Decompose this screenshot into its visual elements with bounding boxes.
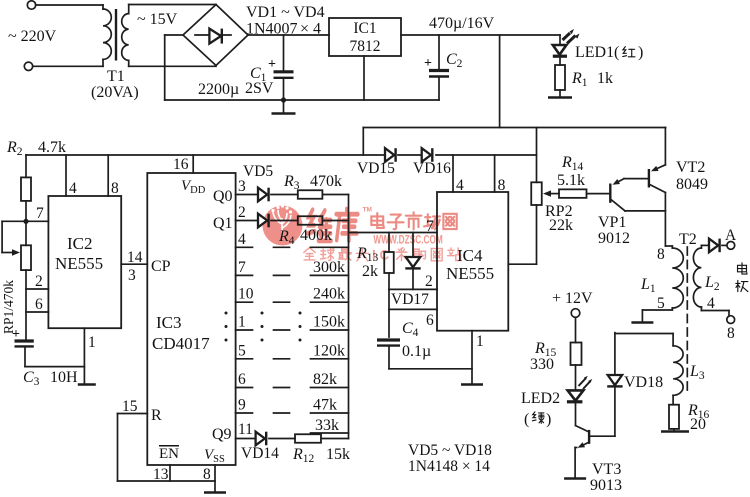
svg-text:8: 8 — [727, 325, 735, 342]
svg-text:470µ/16V: 470µ/16V — [429, 15, 495, 32]
svg-text:IC2: IC2 — [67, 234, 93, 253]
svg-text:2: 2 — [425, 273, 433, 290]
svg-text:VD15: VD15 — [357, 160, 395, 177]
svg-text:RP1/470k: RP1/470k — [1, 280, 16, 334]
svg-text:7: 7 — [426, 218, 434, 235]
svg-text:LED1: LED1 — [575, 44, 614, 61]
svg-text:VD5: VD5 — [243, 163, 273, 180]
svg-text:): ) — [546, 411, 551, 428]
svg-text:NE555: NE555 — [446, 264, 494, 283]
svg-text:Q0: Q0 — [213, 188, 233, 205]
svg-text:8: 8 — [111, 180, 119, 197]
svg-text:9012: 9012 — [598, 230, 630, 247]
svg-text:13: 13 — [153, 466, 169, 483]
svg-text:2: 2 — [238, 204, 246, 221]
svg-text:470k: 470k — [310, 173, 342, 190]
svg-text:0.1µ: 0.1µ — [402, 343, 431, 360]
svg-text:Q9: Q9 — [212, 426, 232, 443]
svg-text:2SV: 2SV — [245, 80, 274, 97]
svg-text:3: 3 — [238, 178, 246, 195]
svg-text:11: 11 — [238, 421, 253, 438]
svg-text:NE555: NE555 — [55, 254, 103, 273]
svg-text:7: 7 — [36, 205, 44, 222]
svg-text:1: 1 — [88, 334, 96, 351]
svg-text:7812: 7812 — [350, 38, 381, 55]
svg-text:T1: T1 — [107, 68, 125, 85]
svg-text:2: 2 — [35, 273, 43, 290]
svg-text:Q1: Q1 — [213, 215, 233, 232]
svg-text:150k: 150k — [313, 314, 345, 331]
svg-text:4: 4 — [69, 180, 77, 197]
svg-text:120k: 120k — [313, 342, 345, 359]
svg-text:VT3: VT3 — [592, 461, 621, 478]
svg-text:82k: 82k — [313, 371, 337, 388]
svg-text:R: R — [151, 407, 162, 424]
svg-text:22k: 22k — [549, 217, 573, 234]
svg-text:TM: TM — [363, 207, 372, 214]
svg-text:+ 12V: + 12V — [552, 290, 593, 307]
svg-text:~ 220V: ~ 220V — [8, 28, 57, 45]
svg-text:5: 5 — [657, 295, 665, 312]
svg-text:15: 15 — [122, 398, 138, 415]
svg-text:WWW.DZSC.COM: WWW.DZSC.COM — [373, 234, 442, 247]
svg-text:LED2: LED2 — [521, 390, 560, 407]
svg-text:1k: 1k — [597, 70, 613, 87]
svg-text:1N4148 × 14: 1N4148 × 14 — [408, 458, 490, 475]
svg-text:IC4: IC4 — [457, 246, 483, 265]
svg-text:(20VA): (20VA) — [91, 84, 139, 101]
svg-text:240k: 240k — [313, 286, 345, 303]
svg-text:4: 4 — [707, 295, 715, 312]
svg-text:14: 14 — [127, 249, 143, 266]
svg-text:CD4017: CD4017 — [152, 334, 210, 353]
svg-text:3: 3 — [128, 267, 136, 284]
svg-text:4.7k: 4.7k — [38, 139, 66, 156]
svg-text:4: 4 — [238, 231, 246, 248]
svg-text:5.1k: 5.1k — [557, 172, 585, 189]
svg-text:33k: 33k — [315, 417, 339, 434]
svg-text:8: 8 — [498, 177, 506, 194]
svg-text:VD17: VD17 — [391, 291, 429, 308]
svg-text:(: ( — [524, 411, 529, 428]
svg-text:VD5 ~ VD18: VD5 ~ VD18 — [408, 442, 492, 459]
svg-text:8049: 8049 — [676, 176, 708, 193]
svg-text:2k: 2k — [362, 263, 378, 280]
svg-text:15k: 15k — [326, 446, 350, 463]
svg-text:A: A — [725, 227, 737, 244]
svg-text:7: 7 — [238, 259, 246, 276]
svg-text:VT2: VT2 — [676, 159, 705, 176]
svg-text:IC3: IC3 — [156, 313, 182, 332]
svg-text:IC1: IC1 — [353, 20, 376, 37]
svg-text:20: 20 — [690, 416, 706, 433]
svg-text:1: 1 — [238, 314, 246, 331]
svg-text:400k: 400k — [300, 227, 332, 244]
svg-text:VD1 ~ VD4: VD1 ~ VD4 — [246, 4, 325, 21]
svg-text:9: 9 — [238, 397, 246, 414]
svg-text:8: 8 — [657, 246, 665, 263]
svg-text:2200µ: 2200µ — [198, 81, 239, 98]
svg-text:5: 5 — [238, 342, 246, 359]
svg-text:VP1: VP1 — [598, 214, 626, 231]
svg-text:× 4: × 4 — [300, 21, 321, 38]
svg-text:8: 8 — [203, 466, 211, 483]
svg-text:VD14: VD14 — [241, 445, 279, 462]
svg-text:~ 15V: ~ 15V — [137, 11, 178, 28]
svg-text:+: + — [268, 57, 276, 72]
svg-text:9013: 9013 — [590, 477, 622, 494]
svg-text:300k: 300k — [313, 259, 345, 276]
svg-text:10: 10 — [238, 286, 254, 303]
svg-text:6: 6 — [35, 296, 43, 313]
svg-text:CP: CP — [151, 258, 171, 275]
svg-text:VD18: VD18 — [624, 374, 663, 391]
svg-text:1N4007: 1N4007 — [246, 21, 298, 38]
svg-text:T2: T2 — [679, 231, 697, 248]
svg-text:4: 4 — [456, 177, 464, 194]
svg-text:1: 1 — [476, 333, 484, 350]
svg-text:+: + — [424, 56, 432, 71]
svg-text:330: 330 — [530, 356, 554, 373]
svg-text:47k: 47k — [313, 397, 337, 414]
svg-text:6: 6 — [426, 312, 434, 329]
svg-text:(: ( — [614, 44, 619, 61]
svg-text:VD16: VD16 — [413, 160, 451, 177]
svg-text:16: 16 — [173, 156, 189, 173]
svg-text:): ) — [638, 44, 643, 61]
svg-text:6: 6 — [238, 371, 246, 388]
svg-text:EN: EN — [159, 446, 179, 462]
svg-text:10H: 10H — [50, 369, 78, 386]
